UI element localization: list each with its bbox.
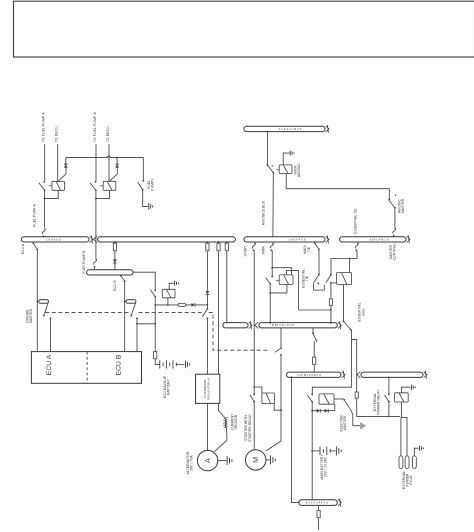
svg-text:ALTERNATOR: ALTERNATOR (203, 379, 207, 398)
svg-text:ECU A: ECU A (46, 354, 53, 375)
contact switch external power relay (384, 395, 389, 402)
svg-text:SENSOR: SENSOR (234, 414, 238, 429)
svg-text:ECU A: ECU A (21, 243, 25, 254)
fuse essential link (226, 241, 228, 243)
svg-text:TO FUEL PUMP A: TO FUEL PUMP A (42, 112, 46, 143)
fuse essential bus feed (329, 298, 332, 307)
fuse ECU backup battery (154, 350, 157, 360)
relay K2 fuel pump B (103, 181, 116, 190)
svg-text:MASTER: MASTER (29, 308, 33, 323)
wire relay K1 output (45, 190, 59, 198)
wire engine master A to ECU (49, 318, 51, 351)
label MASTER CONTROL (389, 244, 397, 261)
label ENGINE MASTER (26, 308, 34, 323)
bus bar main distribution left (94, 236, 236, 242)
svg-text:BUS: BUS (361, 308, 365, 316)
wire backup relay junction (137, 323, 155, 325)
svg-text:M: M (251, 457, 260, 463)
svg-text:ECU B: ECU B (115, 354, 122, 375)
wire essential bus to battery bus (312, 328, 314, 333)
mechanical link engine master (dashed) (45, 311, 130, 313)
external power plug pin 3 (412, 456, 416, 469)
circuit breaker fuel pump B (94, 259, 97, 268)
fuse battery bus feed (313, 356, 316, 366)
switch FUEL PUMPS (138, 182, 144, 191)
label EXTERNAL POWER RELAY (373, 389, 381, 415)
wire essential bus to starter switch (280, 328, 282, 348)
label ESSENTIAL BUS (358, 302, 366, 321)
breaker START (252, 243, 255, 251)
wire pin 3 to ground (414, 448, 418, 456)
svg-text:24V / 13.6Ah: 24V / 13.6Ah (323, 457, 327, 477)
relay electric master (319, 394, 334, 404)
contact switch of relay K2 (90, 183, 97, 191)
wire starter relay coil bottom (274, 404, 281, 411)
label START (244, 245, 248, 256)
switch starter line (engine linked) (275, 347, 282, 352)
backup battery feed line with fuse and diode (155, 304, 178, 306)
label ALTERNATOR 28V/70A (186, 451, 194, 474)
breaker ECU B (120, 275, 125, 282)
svg-text:28V / 70A: 28V / 70A (190, 455, 194, 471)
svg-text:MASTER: MASTER (343, 415, 347, 430)
breaker MAIN TIE (314, 242, 320, 250)
svg-text:BATTERY: BATTERY (166, 379, 170, 395)
svg-text:ECU B: ECU B (113, 280, 117, 291)
svg-text:AVIONICS BUS: AVIONICS BUS (261, 200, 265, 225)
wire PWR down (271, 250, 273, 276)
svg-text:CONTROL: CONTROL (393, 244, 397, 261)
svg-text:TIE: TIE (307, 246, 311, 252)
wire bottom feed (318, 519, 320, 530)
switch ELECTRIC MASTER (334, 398, 344, 400)
wire PWR relay coil bottom (270, 285, 287, 293)
current sensor coil (225, 419, 226, 427)
svg-text:REGULATOR LH: REGULATOR LH (207, 378, 211, 400)
wire avionics feed (267, 131, 269, 133)
external power pins node (401, 417, 407, 456)
svg-text:FUEL PUMP B: FUEL PUMP B (82, 250, 86, 274)
wire avionics bus to distribution bus (272, 173, 274, 237)
main battery (312, 450, 320, 452)
link bus bar (223, 321, 252, 329)
svg-text:MASTER: MASTER (401, 198, 405, 213)
label MAIN TIE (303, 245, 311, 254)
switch PWR relay contact (266, 278, 271, 285)
wire battery bus left tap down (291, 376, 293, 378)
ECU box divider (86, 352, 88, 384)
title block (empty) (14, 1, 474, 57)
label FUEL PUMPS (147, 178, 155, 191)
svg-text:START: START (244, 245, 248, 256)
wire essential tie tap to DP switch (331, 250, 357, 274)
wire branch to external power (351, 340, 356, 391)
flyback diode D2 (115, 164, 119, 168)
diodes electric master relay (312, 410, 316, 412)
label PWR (262, 245, 266, 254)
DP switch essential tie pole 1 (314, 274, 320, 283)
circuit breaker fuel pump A (42, 228, 45, 237)
wire external power relay output (400, 402, 402, 418)
flyback diode D1 (64, 164, 68, 168)
svg-text:ESSENTIAL TIE: ESSENTIAL TIE (354, 208, 358, 234)
ground external power relay (401, 387, 410, 393)
DP switch essential tie pole 2 (326, 274, 332, 283)
DP switch frame (314, 283, 325, 290)
wire essential tie relay output (343, 285, 345, 322)
wire essential bus feed (330, 307, 332, 323)
wire avionic master down (394, 208, 396, 228)
ground starter motor (266, 459, 270, 461)
label TO EECU (B) (106, 126, 110, 143)
wire to EECU B (108, 144, 110, 181)
svg-text:A: A (203, 458, 212, 463)
relay external power (395, 393, 409, 402)
wire starter relay coil top (254, 387, 262, 393)
fuse regulator feed (207, 241, 209, 243)
label FUEL PUMP B (82, 250, 86, 274)
wire essential tie pole2 down (330, 283, 332, 298)
wire regulator to alternator (206, 403, 208, 450)
ECU box (31, 352, 141, 384)
wire starter contact to motor (253, 402, 255, 450)
svg-text:PWR: PWR (262, 245, 266, 254)
essential bus bar (255, 321, 341, 329)
battery bus bar (287, 371, 346, 379)
svg-text:FUEL PUMP A: FUEL PUMP A (33, 203, 37, 226)
avionics bus bar (244, 125, 329, 133)
wire to fuel pump B (95, 144, 97, 181)
wire fuse line to DP frame link (299, 309, 331, 311)
label TO FUEL PUMP A (42, 112, 46, 143)
svg-text:PLUG: PLUG (409, 475, 413, 485)
svg-text:2 4V·8/1 3·6 B 2 S: 2 4V·8/1 3·6 B 2 S (297, 373, 321, 377)
svg-text:PUMPS: PUMPS (150, 178, 154, 191)
relay ECU backup (162, 289, 175, 298)
wire to fuel pump A (44, 144, 46, 181)
svg-text:A 7·8·A 2·U B 0 F: A 7·8·A 2·U B 0 F (279, 127, 302, 131)
wire MAIN TIE down (318, 249, 320, 274)
wire essential tie relay coil top (349, 259, 351, 273)
bus bar essential tie (340, 235, 410, 243)
svg-text:AVIONIC: AVIONIC (297, 162, 301, 177)
ground external power plug (420, 445, 424, 451)
starter motor M (246, 450, 266, 470)
wire ECU A feed (36, 250, 38, 352)
wire PWR contact down to essential bus (269, 284, 271, 323)
svg-text:B 4·2 3 n 4 8·3 m: B 4·2 3 n 4 8·3 m (306, 501, 329, 505)
wire electric master to ground (350, 409, 360, 426)
wire fuel pump A feed down (44, 190, 46, 227)
label STARTER WITH STARTER RELAY (244, 413, 252, 442)
wire current sensor to alternator (215, 428, 227, 452)
wire to ground (143, 190, 148, 206)
svg-text:STARTER RELAY: STARTER RELAY (248, 413, 252, 442)
label TO EECU (A) (55, 126, 59, 143)
ground ECU backup battery (186, 361, 190, 369)
wire battery line down (311, 402, 313, 500)
fuse bottom bus (318, 505, 320, 509)
label TO FUEL PUMP B (93, 111, 97, 142)
ground backup relay (169, 283, 174, 289)
svg-text:POWER RELAY: POWER RELAY (376, 389, 380, 415)
label MAIN BATTERY 24V/13.6Ah (320, 454, 328, 480)
contact switch of relay K1 (39, 183, 46, 191)
wire fuel pumps switch rail (66, 156, 144, 180)
wire main avionic relay to avionic master (286, 174, 389, 199)
alternator regulator box (196, 374, 220, 403)
bus bar ECU (87, 270, 133, 275)
switch AVIONIC MASTER (389, 200, 396, 209)
wire backup relay coil to fuse line (167, 298, 169, 305)
wire relay K2 output (96, 190, 110, 198)
switch regulator feed (engine master linked) (206, 305, 208, 309)
bus bar ECU A (21, 235, 93, 243)
battery bus bar right segment (357, 371, 427, 379)
wire START down (253, 250, 255, 394)
label ECU BACKUP BATTERY (163, 375, 171, 398)
circuit breaker avionic feed (393, 228, 396, 237)
wire to alternator regulator (206, 319, 208, 375)
relay starter (262, 393, 275, 404)
wire to EECU A (57, 144, 59, 181)
wire to backup battery (155, 360, 160, 364)
fuse bus link (114, 241, 116, 243)
label ECU A (bus tap) (21, 243, 25, 254)
wire to link bus (226, 252, 228, 323)
label ELECTRIC MASTER (339, 414, 347, 432)
svg-text:2 4·8 V 4 U 8: 2 4·8 V 4 U 8 (288, 237, 306, 241)
bus bar main distribution right (244, 235, 329, 243)
svg-text:TIE: TIE (305, 275, 309, 281)
label MAIN AVIONIC (293, 162, 301, 177)
switch ENGINE MASTER pole A (39, 300, 49, 304)
relay essential tie (337, 273, 352, 285)
switch ENGINE MASTER pole B (126, 300, 136, 304)
label EXTERNAL POWER PLUG (402, 471, 413, 489)
contact switch main avionic relay (267, 164, 275, 173)
diode bus link (113, 259, 117, 263)
ground fuel pumps switch (149, 203, 153, 210)
svg-text:TO FUEL PUMP B: TO FUEL PUMP B (93, 111, 97, 142)
ground main battery (336, 446, 341, 455)
wire fuel pump B feed down (95, 190, 97, 258)
ground alternator (218, 460, 227, 462)
wire PWR relay coil top (272, 268, 291, 275)
label CURRENT SENSOR (230, 414, 238, 431)
external power plug pin 1 (399, 456, 403, 469)
diode regulator feed (206, 291, 210, 295)
fuse external power line (355, 391, 358, 400)
label FUEL PUMP A (33, 203, 37, 226)
wire to electric master relay (312, 330, 351, 394)
wire backup relay contact down (154, 297, 156, 351)
svg-text:TO EECU: TO EECU (106, 126, 110, 143)
breaker essential tie tap (355, 243, 358, 251)
label AVIONIC MASTER (397, 198, 405, 213)
label ESSENTIAL TIE (switch) (301, 269, 309, 288)
label AVIONICS BUS (261, 200, 265, 225)
wire to essential tie relay coil (331, 282, 337, 284)
wire ECU B feed (124, 282, 126, 352)
battery ECU backup (160, 360, 177, 368)
wire ECU bus to backup relay switch (133, 272, 155, 290)
bottom distribution bus bar (299, 498, 342, 506)
switch relay output (343, 321, 352, 331)
contact switch starter relay (250, 395, 255, 402)
fuse alternator line (218, 241, 220, 243)
svg-text:A 8V·L 4·B 2 8: A 8V·L 4·B 2 8 (370, 237, 389, 241)
label ECU B (bus tap) (113, 280, 117, 291)
wire link to DP switch frame (287, 271, 299, 310)
svg-text:TO EECU: TO EECU (55, 126, 59, 143)
label ESSENTIAL TIE (bus) (354, 208, 358, 234)
wire external contact down (388, 402, 390, 417)
breaker ECU A (32, 242, 38, 250)
ground main avionic relay (283, 153, 289, 165)
relay K1 fuel pump A (52, 181, 65, 190)
external power plug pin 2 (405, 456, 409, 469)
wire starter line down (280, 355, 282, 410)
wire to starter motor (266, 410, 281, 451)
label ALTERNATOR REGULATOR LH (203, 378, 211, 400)
relay main avionic (279, 165, 292, 174)
contact switch electric master relay (307, 395, 313, 402)
wire battery bus to external power contact (388, 376, 390, 378)
svg-text:B 8V·A 8 L·8 U 8: B 8V·A 8 L·8 U 8 (272, 323, 294, 327)
wire engine master B to ECU (136, 318, 138, 351)
wire external power line (357, 399, 400, 416)
contact switch backup relay (150, 290, 156, 298)
alternator A (197, 450, 217, 470)
relay PWR (279, 275, 293, 285)
svg-text:2 8·V 8 U S: 2 8·V 8 U S (46, 237, 61, 241)
breaker PWR (270, 243, 273, 251)
